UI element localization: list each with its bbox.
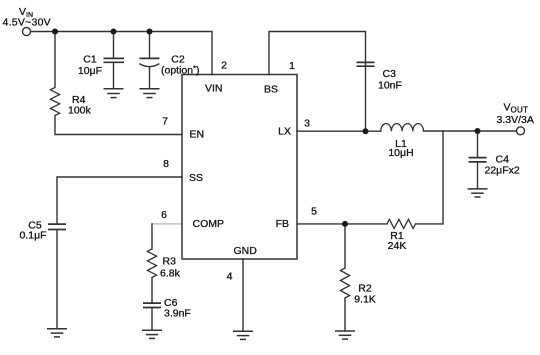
svg-text:4: 4 xyxy=(227,271,233,283)
svg-text:4.5V~30V: 4.5V~30V xyxy=(3,17,51,29)
svg-text:R3: R3 xyxy=(163,256,177,268)
svg-text:10μH: 10μH xyxy=(388,147,413,159)
svg-text:2: 2 xyxy=(221,60,227,72)
svg-text:C3: C3 xyxy=(383,68,397,80)
svg-text:3.3V/3A: 3.3V/3A xyxy=(497,114,534,126)
svg-text:1: 1 xyxy=(289,60,295,72)
svg-text:10μF: 10μF xyxy=(78,65,102,77)
svg-text:22μFx2: 22μFx2 xyxy=(485,165,520,177)
svg-text:GND: GND xyxy=(234,245,258,257)
svg-text:3.9nF: 3.9nF xyxy=(164,308,191,320)
svg-text:7: 7 xyxy=(162,116,168,128)
svg-text:BS: BS xyxy=(264,84,278,96)
svg-text:24K: 24K xyxy=(388,240,407,252)
svg-text:6.8k: 6.8k xyxy=(160,268,181,280)
svg-text:EN: EN xyxy=(190,129,205,141)
svg-text:VIN: VIN xyxy=(205,83,223,95)
svg-text:6: 6 xyxy=(161,209,167,221)
svg-text:10nF: 10nF xyxy=(378,80,402,92)
svg-text:3: 3 xyxy=(304,118,310,130)
svg-text:COMP: COMP xyxy=(193,218,225,230)
svg-text:SS: SS xyxy=(189,172,203,184)
svg-text:FB: FB xyxy=(276,218,289,230)
svg-text:8: 8 xyxy=(163,158,169,170)
svg-text:LX: LX xyxy=(278,126,291,138)
svg-text:0.1μF: 0.1μF xyxy=(19,230,46,242)
svg-text:100k: 100k xyxy=(68,105,92,117)
svg-text:C1: C1 xyxy=(83,54,97,66)
svg-text:9.1K: 9.1K xyxy=(354,294,376,306)
svg-text:5: 5 xyxy=(311,206,317,218)
